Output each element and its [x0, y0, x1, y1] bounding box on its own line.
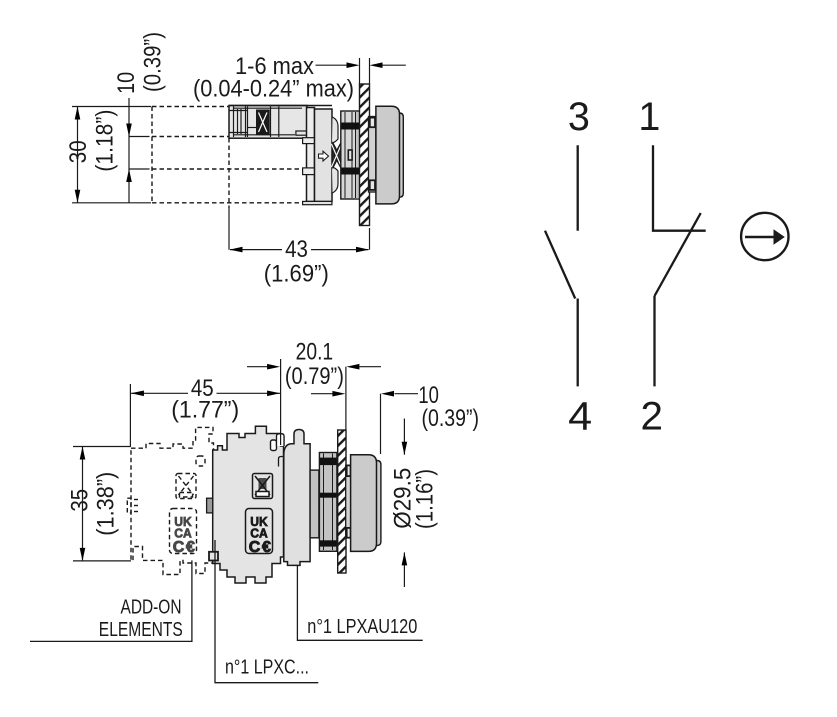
svg-text:(1.16”): (1.16”): [412, 469, 439, 529]
contact block (side view, mounted): [229, 106, 307, 139]
actuator bottom flange: [303, 201, 332, 204]
add-on small hole: [196, 456, 205, 466]
svg-text:(1.69”): (1.69”): [264, 260, 329, 287]
svg-text:20.1: 20.1: [296, 339, 334, 366]
svg-text:(0.39”): (0.39”): [422, 405, 480, 432]
leader n°1 LPXC...: [215, 540, 318, 683]
main block right-edge hook top: [277, 434, 285, 446]
block inner lines: [234, 107, 302, 138]
svg-text:(1.77”): (1.77”): [171, 397, 239, 424]
projection dashed box: [152, 107, 307, 209]
dimension 45 (1.77"): [130, 359, 280, 447]
bezel clip top: [347, 465, 351, 476]
wire from 3: [577, 145, 579, 230]
collar black band bottom: [320, 540, 337, 546]
dimension 43 (1.69"): [229, 208, 370, 250]
svg-text:10: 10: [113, 72, 140, 94]
panel cross-section (hatched): [338, 430, 346, 573]
panel cross-section (hatched): [360, 84, 370, 226]
svg-text:ADD-ON: ADD-ON: [121, 596, 182, 618]
main block right-edge hook mid: [279, 457, 284, 467]
svg-text:35: 35: [67, 489, 94, 512]
bezel clip bottom: [347, 528, 351, 538]
screw (cross section): [257, 110, 270, 135]
bezel clip bottom: [370, 180, 375, 190]
svg-text:n°1 LPXAU120: n°1 LPXAU120: [307, 616, 417, 638]
add-on contact block (dashed): [127, 427, 213, 574]
button head front lip: [374, 461, 381, 546]
moving blade: [545, 231, 575, 299]
bezel clip top: [370, 118, 375, 128]
main block bottom-left clip: [209, 552, 218, 561]
svg-text:4: 4: [568, 395, 592, 439]
svg-text:€: €: [262, 539, 271, 556]
actuation direction symbol: [741, 213, 788, 260]
actuator body: [315, 109, 333, 202]
latch tab lower: [303, 168, 315, 175]
clip between blocks: [207, 498, 213, 513]
moving blade: [655, 213, 701, 296]
svg-text:n°1 LPXC...: n°1 LPXC...: [225, 656, 309, 678]
button head front lip: [397, 113, 404, 197]
dimension diameter 29.5 (1.16"): [403, 419, 405, 588]
collar clip detail: [348, 150, 352, 160]
NC contact 1-2: [653, 145, 706, 386]
latch tab upper: [303, 138, 315, 144]
bezel plate: [369, 117, 376, 193]
add-on left tab: [127, 498, 131, 513]
svg-text:(0.04-0.24” max): (0.04-0.24” max): [193, 76, 354, 103]
add-on label box: [170, 509, 197, 554]
wire to 4: [577, 299, 579, 387]
wire to 2: [653, 296, 655, 386]
dimension 10 (0.39") protrusion: [311, 394, 418, 454]
dimension 35 (1.38"): [73, 447, 131, 561]
collar body: [319, 453, 337, 552]
wire from 1 with foot: [653, 145, 706, 230]
collar black band top: [320, 458, 337, 466]
main block right-edge hook mid: [279, 457, 284, 467]
main block small top rect: [271, 440, 277, 451]
collar black band upper: [342, 123, 360, 130]
svg-text:(0.39”): (0.39”): [140, 32, 167, 92]
main contact block: [213, 426, 284, 583]
svg-text:(0.79”): (0.79”): [285, 363, 344, 390]
button head: [351, 455, 377, 552]
panel edge extension ticks: [359, 58, 361, 84]
actuator back plate: [307, 108, 315, 202]
svg-text:43: 43: [285, 236, 308, 263]
block step at right bottom: [296, 131, 307, 135]
terminal clamp lines: [230, 107, 257, 138]
svg-text:C: C: [173, 539, 185, 556]
main block right-edge hook top: [277, 434, 285, 446]
svg-text:3: 3: [568, 95, 590, 139]
dimension 30 (1.18"): [72, 107, 151, 203]
svg-text:€: €: [186, 539, 195, 556]
NO contact 3-4: [545, 145, 578, 386]
leader n°1 LPXAU120: [297, 565, 422, 640]
mounting collar: [341, 111, 360, 199]
main block screw symbol: [253, 474, 273, 499]
collar black band lower: [342, 168, 360, 175]
add-on screw symbol: [176, 474, 196, 499]
dimension 20.1 (0.79"): [247, 367, 381, 430]
release arrow (hollow): [319, 151, 329, 161]
button head: [376, 106, 400, 204]
svg-text:2: 2: [641, 395, 664, 439]
svg-text:1: 1: [638, 95, 660, 139]
svg-text:(1.38”): (1.38”): [92, 472, 119, 536]
svg-text:(1.18”): (1.18”): [92, 110, 119, 172]
bellows / spring: [332, 117, 342, 193]
actuator top flange line: [229, 105, 332, 107]
svg-text:30: 30: [65, 140, 92, 163]
bezel plate: [346, 465, 353, 537]
collar black band middle: [320, 493, 337, 498]
svg-text:ELEMENTS: ELEMENTS: [99, 619, 183, 641]
main block label box: [246, 509, 273, 554]
leader ADD-ON ELEMENTS: [30, 560, 192, 641]
dimension 10 (0.39") travel: [129, 98, 150, 203]
actuator body: [284, 430, 310, 566]
actuator shaft: [310, 470, 319, 538]
svg-text:C: C: [249, 539, 261, 556]
